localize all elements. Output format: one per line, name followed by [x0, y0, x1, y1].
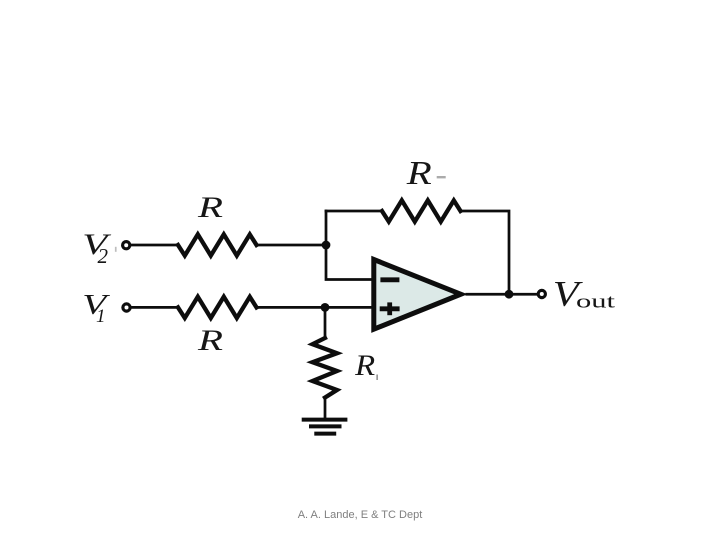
wire [324, 307, 327, 338]
resistor R (V2 input) [178, 234, 257, 255]
wire [326, 210, 382, 213]
wire [132, 306, 178, 309]
subscript artifact [376, 375, 378, 381]
node B [321, 303, 330, 312]
svg-text:2: 2 [98, 244, 109, 268]
output terminal Vout [538, 290, 545, 297]
wire [467, 293, 537, 296]
wire [257, 306, 373, 309]
svg-text:out: out [576, 292, 616, 313]
svg-text:R: R [354, 349, 375, 382]
wire [461, 211, 510, 294]
resistor R (feedback) [382, 200, 461, 221]
wire [324, 398, 327, 420]
op-amp U1 [374, 260, 461, 330]
wire [326, 211, 373, 280]
resistor R (ground leg) [313, 338, 338, 398]
ground [302, 420, 348, 434]
input terminal V2 [123, 242, 130, 249]
apostrophe artifact [115, 247, 117, 252]
svg-text:R: R [197, 191, 223, 224]
svg-text:R: R [406, 155, 432, 192]
node A [322, 241, 331, 250]
svg-text:R: R [197, 324, 223, 357]
value dash artifact [437, 176, 446, 178]
svg-text:A. A. Lande, E & TC Dept: A. A. Lande, E & TC Dept [298, 509, 423, 521]
wire [131, 244, 178, 247]
wire [257, 244, 327, 247]
resistor R (V1 input) [178, 297, 257, 318]
svg-text:1: 1 [96, 306, 106, 327]
input terminal V1 [123, 304, 130, 311]
node C [505, 290, 514, 299]
